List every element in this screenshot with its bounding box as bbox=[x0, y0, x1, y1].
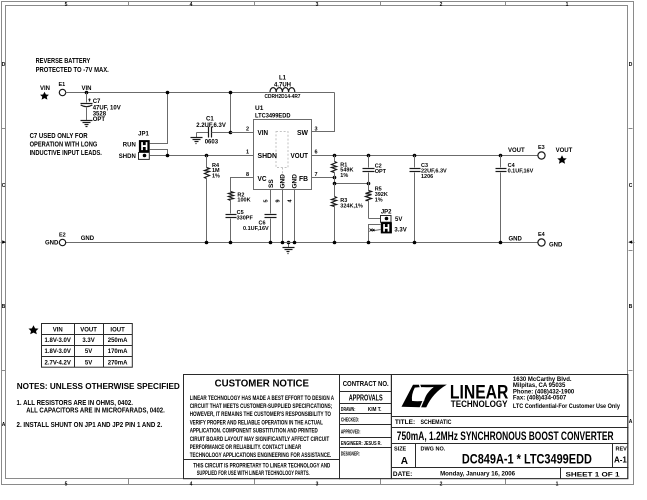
svg-text:1: 1 bbox=[246, 149, 249, 155]
svg-text:B: B bbox=[629, 304, 633, 310]
svg-text:GND: GND bbox=[280, 174, 287, 189]
svg-text:GND: GND bbox=[509, 236, 523, 242]
svg-text:4: 4 bbox=[190, 482, 193, 488]
svg-text:FB: FB bbox=[299, 174, 309, 183]
wire VOUT rail bbox=[312, 154, 539, 158]
svg-text:SS: SS bbox=[268, 179, 275, 188]
svg-text:Phone: (408)432-1900: Phone: (408)432-1900 bbox=[513, 389, 575, 395]
svg-text:1%: 1% bbox=[340, 173, 348, 179]
svg-text:SHDN: SHDN bbox=[119, 154, 136, 160]
resistor R3 bbox=[332, 184, 364, 243]
wire SW net bbox=[312, 93, 335, 132]
svg-text:ALL CAPACITORS ARE IN MICROFAR: ALL CAPACITORS ARE IN MICROFARADS, 0402. bbox=[26, 408, 165, 415]
terminal E1 bbox=[59, 82, 92, 96]
wire GND pin 4 bbox=[294, 190, 296, 243]
wire VIN to pin 2 bbox=[229, 91, 254, 135]
svg-text:GND: GND bbox=[81, 236, 95, 242]
svg-text:A: A bbox=[629, 419, 633, 425]
wire JP1 pin2 to SHDN net bbox=[150, 150, 168, 156]
svg-text:VERIFY PROPER AND RELIABLE OPE: VERIFY PROPER AND RELIABLE OPERATION IN … bbox=[190, 420, 323, 426]
svg-text:SIZE: SIZE bbox=[394, 447, 407, 453]
wire SS pin / capacitor C6 bbox=[243, 190, 277, 243]
svg-text:VOUT: VOUT bbox=[291, 151, 309, 160]
svg-text:0.1UF,16V: 0.1UF,16V bbox=[243, 226, 269, 232]
svg-text:E1: E1 bbox=[59, 82, 66, 88]
svg-text:5: 5 bbox=[65, 482, 68, 488]
node FB link bbox=[333, 182, 371, 186]
svg-text:2. INSTALL SHUNT ON JP1 AND J: 2. INSTALL SHUNT ON JP1 AND JP2 PIN 1 AN… bbox=[17, 422, 163, 429]
svg-text:DC849A-1 * LTC3499EDD: DC849A-1 * LTC3499EDD bbox=[462, 451, 592, 466]
svg-text:2: 2 bbox=[440, 2, 443, 8]
customer notice box bbox=[184, 375, 340, 479]
svg-text:C: C bbox=[2, 183, 6, 189]
svg-text:B: B bbox=[2, 304, 6, 310]
svg-text:1. ALL RESISTORS ARE IN OHMS,: 1. ALL RESISTORS ARE IN OHMS, 0402. bbox=[17, 400, 134, 407]
svg-text:D: D bbox=[2, 62, 6, 68]
svg-text:3: 3 bbox=[316, 2, 319, 8]
svg-text:GND: GND bbox=[292, 174, 299, 189]
node: C7 tap bbox=[85, 91, 89, 103]
svg-text:NOTES: UNLESS OTHERWISE SPECI: NOTES: UNLESS OTHERWISE SPECIFIED bbox=[17, 381, 180, 391]
wire GND rail bbox=[66, 241, 539, 245]
terminal E2 GND bbox=[45, 233, 95, 247]
capacitor C2 bbox=[363, 156, 387, 184]
terminal E3 VOUT bbox=[508, 145, 573, 164]
svg-text:OPT: OPT bbox=[93, 117, 106, 123]
title row bbox=[395, 419, 614, 443]
svg-text:REVERSE BATTERY: REVERSE BATTERY bbox=[36, 58, 91, 65]
svg-text:TECHNOLOGY APPLICATIONS ENGINE: TECHNOLOGY APPLICATIONS ENGINEERING FOR … bbox=[190, 453, 332, 459]
svg-text:750mA, 1.2MHz SYNCHRONOUS BOOS: 750mA, 1.2MHz SYNCHRONOUS BOOST CONVERTE… bbox=[397, 429, 614, 443]
table: operating conditions bbox=[29, 324, 133, 368]
svg-text:1206: 1206 bbox=[421, 174, 433, 180]
svg-text:VOUT: VOUT bbox=[556, 148, 573, 154]
svg-text:RUN: RUN bbox=[123, 142, 136, 148]
svg-text:330PF: 330PF bbox=[237, 215, 254, 221]
svg-text:2: 2 bbox=[246, 126, 249, 132]
resistor R2 bbox=[229, 192, 251, 214]
svg-text:0.1UF,16V: 0.1UF,16V bbox=[508, 169, 534, 175]
resistor R4 bbox=[205, 156, 221, 243]
svg-text:A: A bbox=[2, 422, 6, 428]
LT logo bbox=[402, 383, 509, 409]
svg-text:LTC Confidential-For Customer: LTC Confidential-For Customer Use Only bbox=[513, 404, 621, 410]
svg-text:Fax: (408)434-0507: Fax: (408)434-0507 bbox=[513, 396, 567, 402]
capacitor C7 bbox=[81, 99, 121, 124]
svg-text:3.3V: 3.3V bbox=[82, 338, 94, 344]
svg-text:170mA: 170mA bbox=[108, 349, 128, 355]
svg-text:LINEAR TECHNOLOGY HAS MADE A B: LINEAR TECHNOLOGY HAS MADE A BEST EFFORT… bbox=[190, 396, 335, 402]
resistor R5 bbox=[366, 184, 388, 219]
note: reverse battery bbox=[36, 58, 109, 74]
date row bbox=[393, 470, 620, 478]
svg-text:SHDN: SHDN bbox=[258, 151, 278, 160]
svg-text:A: A bbox=[401, 456, 408, 467]
svg-text:E4: E4 bbox=[538, 232, 546, 238]
svg-text:SW: SW bbox=[297, 128, 309, 137]
svg-text:6: 6 bbox=[314, 149, 317, 155]
svg-text:PROTECTED TO -7V MAX.: PROTECTED TO -7V MAX. bbox=[36, 67, 109, 74]
wire FB net bbox=[312, 176, 337, 180]
resistor R1 bbox=[332, 156, 354, 184]
svg-text:VIN: VIN bbox=[53, 327, 63, 333]
svg-text:1%: 1% bbox=[375, 197, 383, 203]
address bbox=[513, 377, 621, 410]
svg-text:LTC3499EDD: LTC3499EDD bbox=[255, 112, 291, 119]
svg-text:SHEET 1 OF 1: SHEET 1 OF 1 bbox=[566, 472, 621, 478]
svg-text:3.3V: 3.3V bbox=[394, 228, 406, 234]
svg-text:5V: 5V bbox=[395, 217, 402, 223]
svg-text:250mA: 250mA bbox=[108, 338, 128, 344]
ground (U1) bbox=[283, 241, 295, 254]
svg-text:D: D bbox=[629, 62, 633, 68]
svg-text:ENGINEER: JESUS R.: ENGINEER: JESUS R. bbox=[341, 441, 382, 447]
svg-text:Monday, January 16, 2006: Monday, January 16, 2006 bbox=[440, 470, 515, 477]
svg-text:VOUT: VOUT bbox=[80, 327, 97, 333]
svg-text:GND: GND bbox=[45, 240, 59, 246]
svg-text:IOUT: IOUT bbox=[110, 327, 125, 333]
capacitor C4 bbox=[496, 156, 534, 243]
svg-text:OPT: OPT bbox=[375, 169, 387, 175]
svg-text:TECHNOLOGY: TECHNOLOGY bbox=[451, 399, 508, 409]
svg-text:5: 5 bbox=[65, 2, 68, 8]
svg-text:1: 1 bbox=[566, 2, 569, 8]
svg-text:E3: E3 bbox=[538, 145, 545, 151]
capacitor C1 bbox=[196, 117, 230, 146]
svg-text:CONTRACT NO.: CONTRACT NO. bbox=[343, 379, 389, 388]
svg-text:CHECKED:: CHECKED: bbox=[341, 417, 359, 423]
ground (C1) bbox=[191, 133, 203, 144]
svg-text:1: 1 bbox=[556, 482, 559, 488]
svg-text:C: C bbox=[629, 183, 633, 189]
svg-text:A-1: A-1 bbox=[614, 456, 627, 465]
svg-text:CDRH2D14-4R7: CDRH2D14-4R7 bbox=[265, 94, 301, 100]
svg-text:GND: GND bbox=[549, 242, 563, 248]
wire VC net bbox=[231, 178, 254, 192]
svg-text:SUPPLIED FOR USE WITH LINEAR T: SUPPLIED FOR USE WITH LINEAR TECHNOLOGY … bbox=[197, 471, 310, 477]
wire GND pin 9 bbox=[282, 190, 284, 243]
svg-text:5: 5 bbox=[263, 199, 269, 202]
wire VIN rail bbox=[66, 92, 335, 94]
svg-text:VOUT: VOUT bbox=[508, 148, 525, 154]
svg-text:TITLE:: TITLE: bbox=[395, 419, 415, 426]
svg-text:HOWEVER, IT REMAINS THE CUSTOM: HOWEVER, IT REMAINS THE CUSTOMER'S RESPO… bbox=[190, 412, 332, 418]
svg-text:C7: C7 bbox=[93, 99, 101, 105]
svg-text:3: 3 bbox=[316, 482, 319, 488]
svg-text:1.8V-3.0V: 1.8V-3.0V bbox=[45, 338, 71, 344]
svg-text:OPERATION WITH LONG: OPERATION WITH LONG bbox=[30, 142, 98, 149]
IC U1 LTC3499EDD bbox=[246, 105, 318, 203]
svg-text:JP2: JP2 bbox=[381, 210, 392, 216]
jumper JP1 bbox=[119, 132, 150, 160]
svg-text:DRAWN:: DRAWN: bbox=[341, 407, 356, 413]
node VIN (input label + star) bbox=[40, 86, 50, 100]
svg-text:324K,1%: 324K,1% bbox=[340, 203, 363, 209]
svg-text:1630 McCarthy Blvd.: 1630 McCarthy Blvd. bbox=[513, 377, 572, 383]
svg-text:APPROVALS: APPROVALS bbox=[349, 394, 383, 403]
svg-text:CIRUIT BOARD LAYOUT MAY SIGNIF: CIRUIT BOARD LAYOUT MAY SIGNIFICANTLY AF… bbox=[190, 437, 330, 443]
svg-text:APPLICATION. COMPONENT SUBSTI: APPLICATION. COMPONENT SUBSTITUTION AND … bbox=[190, 429, 319, 435]
svg-text:100K: 100K bbox=[237, 198, 250, 204]
svg-text:9: 9 bbox=[276, 199, 282, 202]
svg-text:U1: U1 bbox=[255, 105, 264, 112]
svg-text:270mA: 270mA bbox=[108, 360, 128, 366]
svg-text:VC: VC bbox=[258, 174, 268, 183]
note: C7 usage bbox=[30, 133, 102, 157]
svg-text:3: 3 bbox=[314, 126, 317, 132]
svg-text:2.7V-4.2V: 2.7V-4.2V bbox=[45, 360, 71, 366]
wire SHDN net bbox=[150, 154, 254, 158]
svg-text:1%: 1% bbox=[212, 174, 220, 180]
approvals box bbox=[340, 375, 392, 479]
svg-text:THIS CIRCUIT IS PROPRIETARY TO: THIS CIRCUIT IS PROPRIETARY TO LINEAR TE… bbox=[193, 464, 330, 470]
svg-text:2: 2 bbox=[440, 482, 443, 488]
svg-text:0603: 0603 bbox=[205, 140, 219, 146]
svg-text:C7 USED ONLY FOR: C7 USED ONLY FOR bbox=[30, 133, 88, 140]
capacitor C5 bbox=[226, 210, 254, 243]
svg-text:KIM T.: KIM T. bbox=[368, 407, 382, 413]
svg-text:4: 4 bbox=[190, 2, 193, 8]
svg-text:CUSTOMER NOTICE: CUSTOMER NOTICE bbox=[215, 378, 309, 390]
svg-text:C1: C1 bbox=[206, 117, 214, 123]
svg-text:DATE:: DATE: bbox=[393, 471, 412, 478]
capacitor C3 bbox=[410, 156, 448, 243]
svg-text:5V: 5V bbox=[85, 349, 92, 355]
svg-text:L1: L1 bbox=[279, 76, 287, 82]
notes bbox=[17, 381, 180, 429]
inductor L1 bbox=[265, 76, 301, 100]
svg-text:1.8V-3.0V: 1.8V-3.0V bbox=[45, 349, 71, 355]
svg-text:REV: REV bbox=[616, 447, 628, 453]
ground (C7) bbox=[81, 121, 93, 127]
svg-text:APPROVED:: APPROVED: bbox=[341, 429, 361, 435]
svg-text:VIN: VIN bbox=[40, 86, 50, 92]
svg-text:PERFORMANCE OR RELIABILITY. C: PERFORMANCE OR RELIABILITY. CONTACT LINE… bbox=[190, 445, 302, 451]
svg-text:5V: 5V bbox=[85, 360, 92, 366]
wire JP1 pin1 to VIN rail bbox=[150, 91, 170, 144]
svg-text:E2: E2 bbox=[59, 233, 66, 239]
title block right bbox=[392, 375, 629, 479]
svg-text:CIRCUIT THAT MEETS CUSTOMER-SU: CIRCUIT THAT MEETS CUSTOMER-SUPPLIED SPE… bbox=[190, 404, 333, 410]
svg-text:INDUCTIVE INPUT LEADS.: INDUCTIVE INPUT LEADS. bbox=[30, 150, 102, 157]
svg-text:JP1: JP1 bbox=[138, 132, 149, 138]
svg-text:DWG NO.: DWG NO. bbox=[421, 447, 446, 453]
svg-text:4.7UH: 4.7UH bbox=[274, 82, 291, 88]
svg-text:Milpitas, CA 95035: Milpitas, CA 95035 bbox=[513, 383, 566, 389]
svg-text:SCHEMATIC: SCHEMATIC bbox=[421, 419, 452, 426]
size / dwg no / rev row bbox=[394, 447, 627, 468]
terminal E4 GND bbox=[509, 232, 564, 248]
svg-text:DESIGNER:: DESIGNER: bbox=[341, 452, 360, 458]
svg-text:VIN: VIN bbox=[258, 128, 269, 137]
jumper JP2 bbox=[369, 210, 407, 243]
